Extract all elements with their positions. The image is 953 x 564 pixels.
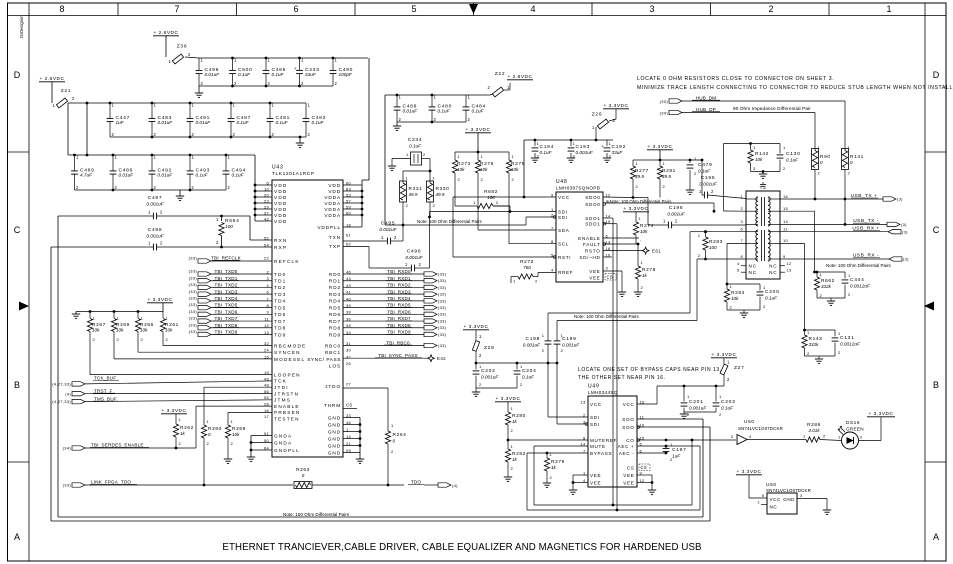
wire ENABLE stub bbox=[603, 237, 639, 239]
svg-text:+ 2.6VDC: + 2.6VDC bbox=[40, 76, 65, 82]
svg-text:Z21: Z21 bbox=[61, 88, 72, 94]
svg-text:TESTEN: TESTEN bbox=[274, 417, 300, 422]
wire C488 row top bus bbox=[385, 94, 490, 97]
net TBI_TXD3 input row bbox=[189, 289, 287, 297]
net TBI_RXD4 output row bbox=[329, 296, 447, 304]
transformer T2 box bbox=[746, 185, 780, 279]
svg-text:27: 27 bbox=[346, 381, 352, 386]
instruction text bypass caps bbox=[578, 367, 722, 381]
svg-text:C130: C130 bbox=[786, 151, 801, 157]
svg-text:1k: 1k bbox=[512, 419, 518, 424]
wire SOO outputs bbox=[637, 419, 710, 427]
svg-text:TXP: TXP bbox=[329, 244, 341, 249]
svg-text:TBI_TXD6: TBI_TXD6 bbox=[214, 309, 237, 314]
capacitor C198 bbox=[523, 313, 552, 417]
wire SD/~HD stub bbox=[603, 256, 612, 258]
svg-text:+ 3.3VDC: + 3.3VDC bbox=[869, 411, 894, 417]
capacitor C496 (TXP coupling) bbox=[343, 247, 430, 272]
svg-text:+ 3.3VDC: + 3.3VDC bbox=[466, 127, 491, 133]
wire C194 row top bus bbox=[524, 139, 613, 142]
ground row2 bbox=[296, 136, 304, 148]
wire R266 to SYNCEN bbox=[138, 338, 272, 352]
svg-text:+ 3.3VDC: + 3.3VDC bbox=[604, 103, 629, 109]
svg-text:C479: C479 bbox=[698, 162, 713, 168]
net TBI_TXD4 input row bbox=[189, 295, 287, 303]
capacitor C485 bbox=[263, 58, 286, 87]
svg-text:GND: GND bbox=[328, 436, 341, 441]
wire USB_RX- row bbox=[780, 243, 889, 284]
wire row3 top bus bbox=[68, 154, 255, 157]
svg-text:4: 4 bbox=[530, 4, 535, 14]
capacitor C486 bbox=[110, 155, 135, 191]
capacitor C203 bbox=[713, 386, 736, 417]
svg-text:332k: 332k bbox=[821, 284, 832, 289]
svg-text:LMH0344SQ: LMH0344SQ bbox=[588, 390, 618, 395]
svg-text:SYNCEN: SYNCEN bbox=[274, 350, 301, 355]
svg-text:HUB_DM: HUB_DM bbox=[696, 95, 717, 100]
svg-text:0: 0 bbox=[850, 160, 853, 165]
svg-text:1uF: 1uF bbox=[672, 454, 681, 459]
svg-text:6: 6 bbox=[293, 4, 298, 14]
svg-text:JTDO: JTDO bbox=[325, 384, 341, 389]
capacitor C483 bbox=[149, 103, 174, 138]
svg-text:ETHERNET TRANCIEVER,CABLE DRIV: ETHERNET TRANCIEVER,CABLE DRIVER, CABLE … bbox=[222, 542, 701, 553]
svg-text:CS: CS bbox=[627, 466, 635, 471]
title text bbox=[222, 542, 701, 553]
ground R268 bbox=[224, 459, 232, 463]
ferrite Z26 bbox=[592, 109, 616, 140]
svg-text:13: 13 bbox=[264, 330, 270, 335]
U48 VEE pins bbox=[589, 265, 616, 280]
wire row2 top bus bbox=[68, 102, 306, 105]
svg-text:GND: GND bbox=[328, 443, 341, 448]
svg-text:GNDA: GNDA bbox=[274, 441, 292, 446]
svg-text:10k: 10k bbox=[92, 328, 100, 333]
resistor R260 0 bbox=[201, 387, 221, 485]
svg-text:(33): (33) bbox=[189, 302, 198, 307]
net HUB_DM bbox=[660, 95, 845, 104]
svg-text:TD1: TD1 bbox=[274, 279, 286, 284]
svg-text:(33): (33) bbox=[438, 305, 447, 310]
svg-text:SOO: SOO bbox=[622, 417, 634, 422]
U43 GND right pins bbox=[328, 413, 352, 455]
svg-text:100: 100 bbox=[709, 245, 717, 250]
resistor R662 332k bbox=[814, 271, 834, 298]
svg-text:(33): (33) bbox=[189, 282, 198, 287]
svg-text:10: 10 bbox=[264, 186, 270, 191]
svg-text:33uF: 33uF bbox=[305, 72, 317, 77]
T2 NC pins bbox=[737, 261, 792, 275]
svg-text:0.01uF: 0.01uF bbox=[119, 173, 135, 178]
resistor R267 10k bbox=[87, 312, 105, 343]
wire MUTEREF row bbox=[508, 439, 588, 441]
svg-text:GND: GND bbox=[328, 450, 341, 455]
svg-text:(33): (33) bbox=[189, 269, 198, 274]
svg-text:(33): (33) bbox=[438, 271, 447, 276]
capacitor C495 (TXN coupling) bbox=[343, 221, 403, 245]
svg-text:14: 14 bbox=[783, 219, 789, 224]
svg-text:+ 3.3VDC: + 3.3VDC bbox=[162, 408, 187, 414]
svg-text:C198: C198 bbox=[526, 336, 541, 342]
transformer T2 shield ground bbox=[760, 182, 766, 186]
svg-text:63: 63 bbox=[346, 186, 352, 191]
svg-text:Z28: Z28 bbox=[484, 345, 495, 351]
svg-text:TD4: TD4 bbox=[274, 299, 286, 304]
top zone ticks bbox=[118, 3, 829, 16]
op-amp U49 cable equalizer IC bbox=[588, 384, 637, 488]
svg-text:0.1uF: 0.1uF bbox=[786, 158, 799, 163]
wire R267 to LOOPEN bbox=[90, 338, 272, 375]
svg-text:TCK: TCK bbox=[274, 379, 287, 384]
wire U43 VDD right stubs bbox=[343, 185, 363, 227]
U43 JTDO THRM pins bbox=[324, 381, 357, 408]
power +3.3VDC (R274) bbox=[623, 206, 649, 212]
capacitor C199 bbox=[554, 321, 581, 425]
svg-text:C495: C495 bbox=[381, 221, 396, 227]
net TCK_BUF bbox=[52, 376, 272, 387]
svg-text:33uF: 33uF bbox=[612, 150, 624, 155]
svg-text:2: 2 bbox=[768, 4, 773, 14]
left zone letters bbox=[14, 70, 21, 542]
svg-text:LOCATE 0 OHM RESISTORS CLOSE T: LOCATE 0 OHM RESISTORS CLOSE TO CONNECTO… bbox=[637, 76, 834, 82]
center alignment arrow top bbox=[469, 4, 478, 14]
capacitor C204 bbox=[514, 363, 537, 388]
ground U48 VEE bbox=[603, 271, 626, 296]
svg-text:CO: CO bbox=[626, 438, 634, 443]
svg-text:RXP: RXP bbox=[274, 245, 287, 250]
U49 right pins bbox=[618, 399, 645, 485]
wire R277 bank top bus bbox=[633, 150, 703, 195]
capacitor C447 bbox=[107, 103, 130, 138]
svg-text:TBI_SERDES_ENABLE: TBI_SERDES_ENABLE bbox=[91, 443, 144, 448]
svg-text:VDD: VDD bbox=[328, 189, 341, 194]
svg-text:C498: C498 bbox=[148, 227, 163, 233]
svg-text:53: 53 bbox=[346, 192, 352, 197]
net TBI_TXD5 input row bbox=[189, 302, 287, 310]
T2 upper windings bbox=[756, 197, 770, 226]
capacitor C234 (feedthrough) bbox=[392, 137, 430, 165]
svg-text:TBI_TXD1: TBI_TXD1 bbox=[214, 276, 237, 281]
svg-text:0.1uF: 0.1uF bbox=[698, 169, 711, 174]
capacitor C195 bbox=[699, 175, 746, 199]
svg-text:REFCLK: REFCLK bbox=[274, 259, 300, 264]
capacitor C444 bbox=[842, 272, 871, 298]
svg-text:11: 11 bbox=[783, 227, 788, 232]
svg-text:E61: E61 bbox=[652, 249, 661, 254]
svg-text:0.0012uF: 0.0012uF bbox=[840, 342, 861, 347]
svg-text:4.7uF: 4.7uF bbox=[80, 173, 93, 178]
svg-text:(4,27,33): (4,27,33) bbox=[52, 382, 71, 387]
wire R275 SCL link bbox=[509, 173, 556, 244]
resistor R142 10k bbox=[748, 144, 769, 172]
wire SDO0 pullup bus bbox=[603, 196, 648, 199]
svg-text:(3): (3) bbox=[902, 229, 908, 234]
svg-text:RBCMODE: RBCMODE bbox=[274, 344, 306, 349]
svg-text:0.1uF: 0.1uF bbox=[522, 375, 535, 380]
svg-text:SD/~HD: SD/~HD bbox=[579, 255, 600, 260]
net USB_RX- bbox=[853, 253, 909, 262]
svg-text:(33): (33) bbox=[438, 318, 447, 323]
svg-text:TBI_TXD5: TBI_TXD5 bbox=[214, 303, 237, 308]
wire row1 right drop to TX coupling area bbox=[362, 58, 369, 185]
svg-text:RBC0: RBC0 bbox=[325, 344, 341, 349]
capacitor C494 bbox=[223, 155, 246, 191]
svg-text:VDD: VDD bbox=[274, 189, 288, 194]
capacitor C192 bbox=[602, 140, 627, 159]
svg-text:VEE: VEE bbox=[623, 473, 634, 478]
U43 RBC0 RBC1 SYNC LOS pins bbox=[307, 341, 351, 369]
power +3.3VDC (Z27) bbox=[711, 352, 737, 358]
net TBI_RBC0 bbox=[343, 340, 447, 348]
svg-text:C444: C444 bbox=[850, 277, 865, 283]
svg-text:SDI: SDI bbox=[590, 415, 600, 420]
svg-text:LMH0387SQNOPB: LMH0387SQNOPB bbox=[556, 186, 600, 191]
svg-text:(33): (33) bbox=[189, 275, 198, 280]
svg-text:1uF: 1uF bbox=[116, 120, 125, 125]
wire T2 pin2 feed bbox=[603, 203, 746, 213]
wire VCC16 riser bbox=[637, 386, 657, 404]
net USB_RX+ bbox=[852, 226, 908, 235]
svg-text:TBI_RXD1: TBI_RXD1 bbox=[387, 276, 411, 281]
svg-text:90 Ohm Impedance Differential: 90 Ohm Impedance Differential Pair bbox=[733, 106, 811, 111]
svg-text:10k: 10k bbox=[457, 167, 465, 172]
svg-text:1k: 1k bbox=[551, 465, 557, 470]
wire C198 to T2 pin6 bbox=[548, 232, 690, 313]
op-amp U43 main IC box bbox=[272, 165, 343, 458]
svg-text:SN74LVC1G07DCKR: SN74LVC1G07DCKR bbox=[738, 426, 784, 431]
net TBI_TXD2 input row bbox=[189, 282, 287, 290]
wire C201 C203 bottom + ground bbox=[680, 412, 716, 418]
svg-text:TBI_TXD8: TBI_TXD8 bbox=[214, 323, 237, 328]
svg-text:+ 3.3VDC: + 3.3VDC bbox=[464, 324, 489, 330]
svg-text:C: C bbox=[933, 225, 940, 235]
svg-text:RD2: RD2 bbox=[329, 285, 341, 290]
svg-text:ENABLE: ENABLE bbox=[274, 404, 300, 409]
svg-text:49.9: 49.9 bbox=[635, 174, 644, 179]
svg-text:DxDesigner: DxDesigner bbox=[19, 15, 24, 37]
svg-text:55: 55 bbox=[264, 395, 270, 400]
net TBI_SERDES_ENABLE bbox=[63, 443, 196, 451]
net TMS_BUF bbox=[52, 396, 272, 404]
wire U43 VDD left bus bbox=[254, 155, 272, 221]
capacitor C493 bbox=[187, 155, 210, 191]
svg-text:,: , bbox=[640, 237, 641, 242]
wire R662 C444 top bus bbox=[813, 271, 845, 274]
wire CO row bbox=[637, 439, 736, 441]
svg-text:LOS: LOS bbox=[329, 364, 341, 369]
svg-text:VEE: VEE bbox=[623, 480, 634, 485]
net TBI_RXD6 output row bbox=[329, 309, 447, 317]
svg-text:C197: C197 bbox=[672, 447, 687, 453]
svg-text:8: 8 bbox=[59, 4, 64, 14]
wire MUTE to CO loop bbox=[534, 439, 693, 505]
svg-text:57: 57 bbox=[346, 198, 352, 203]
svg-text:Z26: Z26 bbox=[592, 112, 603, 118]
U43 VDD right pin labels bbox=[317, 180, 351, 229]
svg-text:HUB_DP: HUB_DP bbox=[696, 107, 716, 112]
svg-text:15: 15 bbox=[783, 206, 789, 211]
wire serdes enable to ENABLE pin bbox=[196, 406, 272, 448]
svg-text:CS: CS bbox=[641, 465, 647, 470]
wire R284 C200 bottom + ground bbox=[727, 310, 760, 317]
wire row2 bottom bus bbox=[110, 136, 306, 139]
svg-text:(30): (30) bbox=[660, 111, 669, 116]
wire R662 C444 bottom + ground bbox=[817, 298, 845, 305]
svg-text:TBI_TXD3: TBI_TXD3 bbox=[214, 289, 237, 294]
resistor R284 10k bbox=[724, 284, 744, 310]
svg-text:TBI_RBC0: TBI_RBC0 bbox=[386, 340, 410, 345]
wire JTDO to TDO row bbox=[343, 388, 388, 485]
wire long vertical from C488 bus bbox=[384, 95, 386, 225]
svg-text:GND: GND bbox=[328, 429, 341, 434]
svg-text:TD5: TD5 bbox=[274, 305, 286, 310]
svg-text:1k: 1k bbox=[642, 273, 648, 278]
wire R261 to RBCMODE bbox=[163, 338, 272, 346]
ground C193 bbox=[567, 158, 575, 162]
capacitor C482 bbox=[303, 103, 326, 138]
svg-text:+ 3.3VDC: + 3.3VDC bbox=[648, 144, 673, 150]
svg-text:TRST_F: TRST_F bbox=[94, 388, 113, 393]
wire big loop SOO to RXP (left/bottom) bbox=[51, 247, 710, 521]
side zone ticks bbox=[8, 152, 947, 462]
svg-text:12: 12 bbox=[606, 192, 612, 197]
instruction text locate resistors bbox=[637, 76, 953, 91]
svg-text:10: 10 bbox=[783, 238, 789, 243]
svg-text:Z22: Z22 bbox=[495, 71, 506, 77]
ferrite Z21 bbox=[53, 88, 76, 108]
U43 JTAG control pins bbox=[264, 370, 301, 422]
resistor R263 0 (boxed) bbox=[294, 467, 404, 489]
ground C488 row bbox=[393, 122, 401, 130]
svg-text:+: + bbox=[294, 66, 297, 71]
svg-text:RD4: RD4 bbox=[329, 299, 341, 304]
svg-text:SDI: SDI bbox=[590, 422, 600, 427]
svg-text:54: 54 bbox=[264, 242, 270, 247]
capacitor C201 bbox=[681, 386, 708, 417]
wire RXN staircase bbox=[220, 215, 272, 249]
svg-text:LOCATE ONE SET OF BYPASS CAPS: LOCATE ONE SET OF BYPASS CAPS NEAR PIN 1… bbox=[578, 367, 722, 373]
op-amp U50 buffer bbox=[731, 419, 784, 445]
svg-text:SCL: SCL bbox=[558, 242, 569, 247]
svg-text:0.001uF: 0.001uF bbox=[562, 343, 580, 348]
svg-text:Z27: Z27 bbox=[734, 365, 745, 371]
resistor R281 49.9 bbox=[657, 160, 675, 198]
svg-text:DS16: DS16 bbox=[846, 420, 860, 426]
ground C234 bbox=[388, 159, 396, 171]
capacitor C233 bbox=[294, 58, 320, 87]
svg-text:42: 42 bbox=[264, 216, 270, 221]
svg-text:VDD: VDD bbox=[274, 183, 288, 188]
U48 right pins bbox=[578, 192, 611, 259]
svg-text:0.1uF: 0.1uF bbox=[721, 406, 734, 411]
svg-text:TBI_RXD6: TBI_RXD6 bbox=[387, 309, 411, 314]
svg-text:RSTO: RSTO bbox=[585, 248, 600, 253]
svg-text:TLK1201A1RCP: TLK1201A1RCP bbox=[272, 171, 315, 177]
svg-text:Note: 100 Ohm Differential Pai: Note: 100 Ohm Differential Pairs bbox=[417, 219, 482, 224]
svg-text:C196: C196 bbox=[669, 205, 684, 211]
svg-text:C199: C199 bbox=[562, 336, 577, 342]
svg-text:VDD: VDD bbox=[274, 219, 288, 224]
svg-text:TBI_RXD7: TBI_RXD7 bbox=[387, 316, 411, 321]
svg-text:12: 12 bbox=[264, 323, 270, 328]
wire USB_TX+ row bbox=[780, 198, 883, 201]
U43 REFCLK pin bbox=[264, 255, 300, 264]
wire row1 top bus bbox=[199, 57, 368, 60]
wire U50 ground bbox=[797, 499, 831, 515]
svg-text:NC: NC bbox=[749, 264, 757, 269]
svg-text:TBI_TXD4: TBI_TXD4 bbox=[214, 296, 237, 301]
svg-text:(33): (33) bbox=[189, 329, 198, 334]
svg-text:(33): (33) bbox=[438, 312, 447, 317]
svg-text:TBI_TXD9: TBI_TXD9 bbox=[214, 330, 237, 335]
U43 RBCMODE SYNCEN MODESEL pins bbox=[264, 341, 306, 362]
svg-text:12: 12 bbox=[787, 261, 793, 266]
svg-text:VDDA: VDDA bbox=[324, 195, 341, 200]
svg-text:NC: NC bbox=[749, 270, 757, 275]
svg-text:0.001uF: 0.001uF bbox=[146, 234, 164, 239]
U49 CS dashed pin bbox=[627, 464, 650, 471]
wire R142 C130 bottom + ground bbox=[751, 170, 781, 178]
svg-text:AEC -: AEC - bbox=[619, 451, 635, 456]
wire row3 bottom bus bbox=[75, 189, 227, 192]
right zone letters bbox=[933, 70, 940, 542]
wire R682 RSTI link bbox=[453, 197, 556, 257]
svg-text:0: 0 bbox=[208, 432, 211, 437]
svg-text:0.001uF: 0.001uF bbox=[699, 182, 717, 187]
svg-text:C201: C201 bbox=[689, 399, 704, 405]
svg-text:0.001uF: 0.001uF bbox=[379, 227, 397, 232]
wire R142 C130 top bus bbox=[724, 142, 781, 211]
svg-text:(33): (33) bbox=[438, 332, 447, 337]
U43 VDD left pin labels bbox=[264, 180, 288, 223]
svg-text:VDD: VDD bbox=[328, 183, 341, 188]
svg-text:GND: GND bbox=[783, 497, 795, 502]
svg-text:C195: C195 bbox=[701, 175, 716, 181]
svg-text:TD3: TD3 bbox=[274, 292, 286, 297]
svg-text:C202: C202 bbox=[481, 368, 496, 374]
svg-text:GND: GND bbox=[328, 422, 341, 427]
power +3.3VDC pull bank bbox=[147, 297, 173, 303]
wire JTDI row bbox=[204, 386, 272, 388]
svg-text:GNDA: GNDA bbox=[274, 434, 292, 439]
svg-text:0: 0 bbox=[393, 439, 396, 444]
capacitor C196 bbox=[648, 198, 746, 229]
svg-text:(33): (33) bbox=[438, 278, 447, 283]
wire FAULT stub bbox=[603, 243, 639, 246]
svg-text:0.1uF: 0.1uF bbox=[438, 109, 451, 114]
svg-text:0.0012uF: 0.0012uF bbox=[850, 284, 871, 289]
wire VCC U48 riser bbox=[453, 140, 556, 198]
svg-text:C204: C204 bbox=[522, 368, 537, 374]
wire pull resistor top bus bbox=[76, 310, 163, 313]
resistor R682 100 bbox=[455, 173, 510, 209]
svg-text:(33): (33) bbox=[438, 285, 447, 290]
svg-text:0.1uF: 0.1uF bbox=[232, 173, 245, 178]
power +3.3VDC R262 bbox=[161, 408, 187, 414]
svg-text:RREF: RREF bbox=[558, 270, 573, 275]
net TBI_RXD2 output row bbox=[329, 283, 447, 291]
svg-text:VDDA: VDDA bbox=[324, 201, 341, 206]
svg-text:37: 37 bbox=[264, 210, 270, 215]
wire T2 pin6 row bbox=[690, 230, 707, 233]
svg-text:TMS_BUF: TMS_BUF bbox=[94, 396, 117, 401]
resistor R330 49.9 (boxed) bbox=[427, 176, 450, 218]
note 90 ohm impedance pair bbox=[733, 106, 811, 111]
svg-text:VDD: VDD bbox=[274, 207, 288, 212]
svg-text:1k: 1k bbox=[512, 457, 518, 462]
wire C201 C203 top bus bbox=[657, 385, 724, 388]
power +2.6VDC (Z22) bbox=[507, 74, 533, 80]
